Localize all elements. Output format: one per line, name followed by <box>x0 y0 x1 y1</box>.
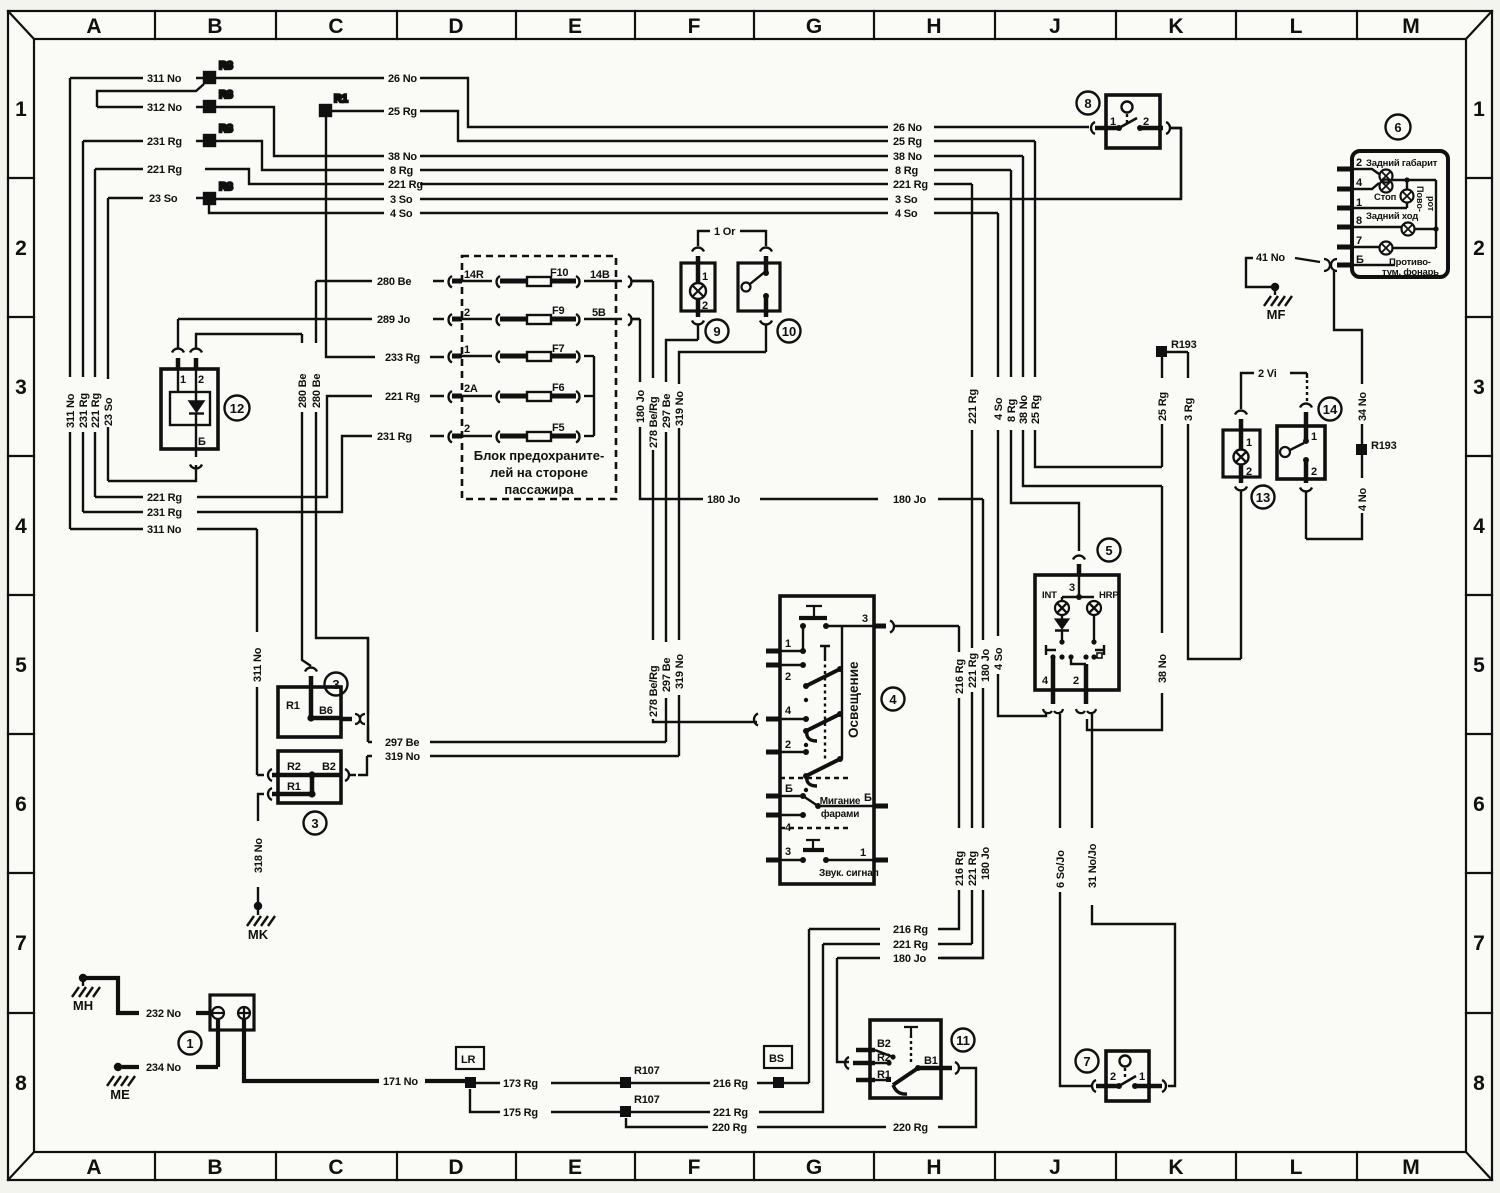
wire 297 Be <box>368 325 698 742</box>
wire 311 No <box>70 78 264 775</box>
fuse row F7 <box>449 351 594 363</box>
svg-text:INT: INT <box>1042 590 1057 601</box>
svg-text:Мигание: Мигание <box>820 796 861 807</box>
svg-text:F: F <box>688 15 701 38</box>
wire 180 Jo lower <box>938 957 983 959</box>
svg-text:319 No: 319 No <box>674 654 686 689</box>
svg-text:216 Rg: 216 Rg <box>713 1078 748 1090</box>
svg-text:14: 14 <box>1323 402 1338 417</box>
svg-text:216 Rg: 216 Rg <box>893 924 928 936</box>
wire 23 So / 3 So <box>108 128 1181 481</box>
svg-text:8 Rg: 8 Rg <box>390 165 413 177</box>
switch unit 10 <box>738 248 780 325</box>
svg-text:2: 2 <box>785 739 791 751</box>
svg-text:M: M <box>1402 1156 1420 1179</box>
svg-text:E: E <box>568 15 582 38</box>
svg-text:12: 12 <box>230 401 244 416</box>
svg-text:4: 4 <box>15 515 27 538</box>
relay 3 lower box <box>268 751 349 803</box>
unit 4 caption flash <box>820 796 861 820</box>
ground ME <box>107 1063 135 1086</box>
svg-text:L: L <box>1290 15 1303 38</box>
connector R8 #4 <box>204 181 233 204</box>
svg-text:R2: R2 <box>877 1052 891 1064</box>
svg-text:220 Rg: 220 Rg <box>712 1122 747 1134</box>
svg-text:2A: 2A <box>464 383 478 395</box>
svg-text:R8: R8 <box>219 60 233 72</box>
svg-text:G: G <box>806 1156 822 1179</box>
svg-text:8: 8 <box>1084 96 1091 111</box>
circled 12 <box>225 396 250 421</box>
svg-text:1: 1 <box>15 98 27 121</box>
wire 180 Jo <box>632 319 983 1062</box>
svg-text:2: 2 <box>198 374 204 386</box>
svg-text:312 No: 312 No <box>147 102 182 114</box>
svg-text:2: 2 <box>464 423 470 435</box>
circled 8 <box>1077 92 1100 115</box>
ground MK <box>247 902 275 926</box>
svg-text:R8: R8 <box>219 181 233 193</box>
svg-text:221 Rg: 221 Rg <box>967 851 979 886</box>
svg-text:10: 10 <box>782 324 796 339</box>
svg-text:4 So: 4 So <box>390 208 413 220</box>
svg-text:280 Be: 280 Be <box>311 374 323 408</box>
row dividers left <box>8 178 34 1013</box>
svg-text:25 Rg: 25 Rg <box>388 106 417 118</box>
svg-text:F5: F5 <box>552 422 565 434</box>
connector R8 #3 <box>204 123 233 146</box>
svg-text:B2: B2 <box>877 1038 891 1050</box>
circled 13 <box>1252 486 1275 509</box>
svg-text:221 Rg: 221 Rg <box>893 179 928 191</box>
svg-text:231 Rg: 231 Rg <box>78 393 90 428</box>
svg-text:2: 2 <box>1143 116 1149 128</box>
svg-text:297 Be: 297 Be <box>385 737 419 749</box>
circled 9 <box>706 320 729 343</box>
unit 12 diode box <box>108 349 218 482</box>
svg-text:лей на стороне: лей на стороне <box>490 465 588 480</box>
svg-text:231 Rg: 231 Rg <box>147 507 182 519</box>
wire 30 No <box>1087 486 1162 730</box>
wire 289 Jo <box>178 319 444 348</box>
svg-text:3: 3 <box>1473 376 1485 399</box>
connector R107 a <box>620 1065 710 1088</box>
svg-text:R107: R107 <box>634 1094 660 1106</box>
connector R107 b <box>620 1094 710 1117</box>
svg-text:216 Rg: 216 Rg <box>954 659 966 694</box>
wire 278 Be/Rg <box>632 281 757 722</box>
wire 312 No / 38 No <box>97 84 1162 486</box>
wire 280 Be <box>316 281 444 742</box>
fuse box caption <box>474 448 605 497</box>
svg-text:B1: B1 <box>924 1055 938 1067</box>
svg-text:8: 8 <box>1356 215 1362 227</box>
svg-text:318 No: 318 No <box>253 838 265 873</box>
wire 232 No <box>83 978 212 1013</box>
svg-text:4 So: 4 So <box>993 647 1005 670</box>
svg-text:MF: MF <box>1267 307 1286 322</box>
connector R1 <box>320 93 444 357</box>
svg-text:Задний габарит: Задний габарит <box>1366 158 1438 169</box>
svg-text:LR: LR <box>461 1054 476 1066</box>
connector X at unit 6 pin Б <box>1324 259 1337 271</box>
svg-text:3 Rg: 3 Rg <box>1183 398 1195 421</box>
svg-text:R8: R8 <box>219 123 233 135</box>
svg-text:311 No: 311 No <box>252 647 264 682</box>
svg-text:233 Rg: 233 Rg <box>385 352 420 364</box>
svg-text:Б: Б <box>198 436 206 448</box>
svg-text:F: F <box>688 1156 701 1179</box>
svg-text:R1: R1 <box>287 781 301 793</box>
svg-text:3: 3 <box>332 677 339 692</box>
svg-text:M: M <box>1402 15 1420 38</box>
svg-text:278 Be/Rg: 278 Be/Rg <box>648 397 660 448</box>
svg-text:Задний ход: Задний ход <box>1366 211 1418 222</box>
wire 41 No <box>1246 258 1320 287</box>
switch unit 14 <box>1277 373 1325 539</box>
svg-text:BS: BS <box>769 1053 784 1065</box>
circled 11 <box>952 1029 975 1052</box>
svg-text:2: 2 <box>15 237 27 260</box>
fuse row F9 <box>449 314 640 326</box>
wire 6 So/Jo <box>1060 714 1093 1086</box>
wire 221 Rg lower <box>759 944 972 1112</box>
svg-text:1: 1 <box>464 344 470 356</box>
svg-text:рот: рот <box>1426 196 1436 212</box>
svg-text:A: A <box>86 15 101 38</box>
svg-text:216 Rg: 216 Rg <box>954 851 966 886</box>
ground MF <box>1264 283 1292 306</box>
svg-text:221 Rg: 221 Rg <box>90 393 102 428</box>
connector R8 #2 <box>204 89 233 112</box>
wire 280 Be branch to unit 12 pin 2 <box>196 334 311 666</box>
svg-text:Блок предохраните-: Блок предохраните- <box>474 448 605 463</box>
svg-text:1: 1 <box>1311 431 1317 443</box>
circled 1 <box>179 1032 202 1055</box>
wire 319 No hook at B2 <box>358 756 367 775</box>
svg-text:H: H <box>926 1156 941 1179</box>
svg-text:MH: MH <box>73 998 93 1013</box>
circled 4 <box>882 688 905 711</box>
svg-text:11: 11 <box>956 1033 970 1048</box>
svg-text:E: E <box>568 1156 582 1179</box>
svg-text:2: 2 <box>1311 466 1317 478</box>
svg-text:7: 7 <box>1083 1054 1090 1069</box>
grid letters top <box>86 15 1419 38</box>
fuse box (dashed) <box>462 256 616 499</box>
svg-text:F7: F7 <box>552 343 565 355</box>
svg-text:2: 2 <box>1073 675 1079 687</box>
svg-text:4: 4 <box>889 692 897 707</box>
svg-text:297 Be: 297 Be <box>661 658 673 692</box>
svg-text:2: 2 <box>702 300 708 312</box>
svg-text:D: D <box>448 1156 463 1179</box>
svg-text:38 No: 38 No <box>1018 395 1030 424</box>
svg-text:G: G <box>806 15 822 38</box>
wire 231 Rg to fuse F5 <box>83 436 444 512</box>
svg-text:231 Rg: 231 Rg <box>147 136 182 148</box>
svg-text:14B: 14B <box>590 269 610 281</box>
row dividers right <box>1466 178 1492 1013</box>
svg-text:6: 6 <box>15 793 27 816</box>
svg-text:25 Rg: 25 Rg <box>1157 392 1169 421</box>
svg-text:R193: R193 <box>1171 339 1197 351</box>
svg-text:278 Be/Rg: 278 Be/Rg <box>648 666 660 717</box>
svg-text:Пово-: Пово- <box>1415 186 1425 212</box>
svg-text:23 So: 23 So <box>103 397 115 426</box>
svg-text:5: 5 <box>1105 543 1112 558</box>
svg-text:пассажира: пассажира <box>504 482 574 497</box>
svg-text:2: 2 <box>1246 466 1252 478</box>
connector R193 a <box>1156 339 1241 659</box>
svg-text:R8: R8 <box>219 89 233 101</box>
svg-text:180 Jo: 180 Jo <box>893 953 927 965</box>
svg-text:2: 2 <box>1356 157 1362 169</box>
connector R8 #1 <box>204 60 233 83</box>
svg-text:232 No: 232 No <box>146 1008 181 1020</box>
svg-text:180 Jo: 180 Jo <box>980 648 992 682</box>
svg-text:4 No: 4 No <box>1357 487 1369 511</box>
circled 7 <box>1076 1050 1099 1073</box>
column dividers top <box>155 11 1357 39</box>
svg-text:175 Rg: 175 Rg <box>503 1107 538 1119</box>
svg-text:231 Rg: 231 Rg <box>377 431 412 443</box>
svg-text:C: C <box>328 15 343 38</box>
wire 221 Rg to fuse F6 <box>95 396 444 497</box>
svg-text:8 Rg: 8 Rg <box>1006 399 1018 422</box>
light switch unit 4 <box>754 596 894 884</box>
fuse outputs bridge <box>593 356 595 436</box>
svg-text:319 No: 319 No <box>385 751 420 763</box>
switch unit 7 <box>1092 1051 1166 1101</box>
svg-text:R193: R193 <box>1371 440 1397 452</box>
svg-text:26 No: 26 No <box>388 73 417 85</box>
wire 31 No/Jo <box>1092 714 1175 1086</box>
svg-text:2: 2 <box>1473 237 1485 260</box>
svg-text:1: 1 <box>702 271 708 283</box>
wire 221 Rg top <box>95 169 972 944</box>
svg-text:180 Jo: 180 Jo <box>980 846 992 880</box>
fuse row F10 <box>449 276 653 288</box>
wire 1 Or <box>698 231 766 246</box>
svg-text:Освещение: Освещение <box>846 661 861 738</box>
svg-text:4: 4 <box>1473 515 1485 538</box>
svg-text:1: 1 <box>180 374 186 386</box>
svg-text:C: C <box>328 1156 343 1179</box>
svg-text:1: 1 <box>1139 1071 1145 1083</box>
svg-text:221 Rg: 221 Rg <box>713 1107 748 1119</box>
svg-text:5B: 5B <box>592 307 606 319</box>
svg-text:R1: R1 <box>286 700 300 712</box>
svg-text:J: J <box>1049 1156 1061 1179</box>
svg-text:B: B <box>207 15 222 38</box>
svg-text:289 Jo: 289 Jo <box>377 314 411 326</box>
ground MH <box>72 974 100 997</box>
svg-text:34 No: 34 No <box>1357 392 1369 421</box>
tail light unit 6 <box>1337 151 1448 277</box>
svg-text:B6: B6 <box>319 705 333 717</box>
svg-text:221 Rg: 221 Rg <box>147 164 182 176</box>
svg-text:F10: F10 <box>550 267 568 279</box>
svg-text:38 No: 38 No <box>1157 654 1169 683</box>
column dividers bottom <box>155 1152 1357 1180</box>
svg-text:173 Rg: 173 Rg <box>503 1078 538 1090</box>
svg-text:280 Be: 280 Be <box>297 374 309 408</box>
wire 231 Rg / 8 Rg <box>83 141 1079 551</box>
svg-text:1: 1 <box>186 1036 193 1051</box>
svg-text:3 So: 3 So <box>390 194 413 206</box>
svg-text:Б: Б <box>1356 254 1364 266</box>
svg-text:7: 7 <box>15 932 27 955</box>
svg-text:3: 3 <box>15 376 27 399</box>
svg-text:1: 1 <box>1246 437 1252 449</box>
svg-text:25 Rg: 25 Rg <box>893 136 922 148</box>
grid letters bottom <box>86 1156 1419 1179</box>
svg-text:234 No: 234 No <box>146 1062 181 1074</box>
svg-text:J: J <box>1049 15 1061 38</box>
svg-text:9: 9 <box>713 324 720 339</box>
svg-text:38 No: 38 No <box>893 151 922 163</box>
lamp unit 13 <box>1223 373 1307 659</box>
svg-text:13: 13 <box>1256 490 1270 505</box>
svg-text:L: L <box>1290 1156 1303 1179</box>
svg-text:3: 3 <box>785 846 791 858</box>
svg-text:тум. фонарь: тум. фонарь <box>1382 267 1439 278</box>
wire 216 Rg <box>809 626 959 1083</box>
lamp unit 9 <box>681 248 715 325</box>
circled 5 <box>1098 539 1121 562</box>
svg-text:1: 1 <box>1473 98 1485 121</box>
svg-text:фарами: фарами <box>821 808 859 820</box>
svg-text:D: D <box>448 15 463 38</box>
svg-text:8: 8 <box>15 1072 27 1095</box>
svg-text:221 Rg: 221 Rg <box>967 653 979 688</box>
wire 173 Rg <box>476 1082 620 1084</box>
svg-text:221 Rg: 221 Rg <box>385 391 420 403</box>
wire 216 Rg to BS <box>757 1082 809 1084</box>
svg-text:F6: F6 <box>552 382 565 394</box>
svg-text:8: 8 <box>1473 1072 1485 1095</box>
svg-text:R107: R107 <box>634 1065 660 1077</box>
grid numbers left <box>15 98 27 1095</box>
wire 220 Rg <box>626 1068 976 1127</box>
svg-text:2 Vi: 2 Vi <box>1258 368 1277 380</box>
svg-text:221 Rg: 221 Rg <box>893 939 928 951</box>
svg-text:B2: B2 <box>322 761 336 773</box>
wire 4 No <box>1306 455 1362 539</box>
interior lamp unit 5 <box>1035 556 1119 714</box>
svg-text:F9: F9 <box>552 305 565 317</box>
svg-text:Б: Б <box>864 792 872 804</box>
switch unit 8 <box>1091 95 1181 199</box>
svg-text:R1: R1 <box>877 1069 891 1081</box>
svg-text:A: A <box>86 1156 101 1179</box>
svg-text:6 So/Jo: 6 So/Jo <box>1055 850 1067 888</box>
svg-text:Стоп: Стоп <box>1374 192 1397 203</box>
svg-text:311 No: 311 No <box>65 393 77 428</box>
wire 34 No <box>1334 271 1362 444</box>
svg-text:B: B <box>207 1156 222 1179</box>
connector R193 b <box>1356 440 1397 455</box>
svg-text:1: 1 <box>1356 197 1362 209</box>
svg-text:221 Rg: 221 Rg <box>147 492 182 504</box>
svg-text:HRP: HRP <box>1099 590 1119 601</box>
wire 25 Rg <box>331 111 1162 467</box>
svg-text:171 No: 171 No <box>383 1076 418 1088</box>
svg-text:5: 5 <box>1473 654 1485 677</box>
svg-text:R1: R1 <box>334 93 348 105</box>
svg-text:3: 3 <box>1069 582 1075 594</box>
grid numbers right <box>1473 98 1485 1095</box>
svg-text:2: 2 <box>1110 1071 1116 1083</box>
svg-text:5: 5 <box>15 654 27 677</box>
svg-text:311 No: 311 No <box>147 524 182 536</box>
wire 175 Rg <box>470 1089 620 1112</box>
relay unit 11 <box>845 1020 959 1098</box>
svg-text:38 No: 38 No <box>388 151 417 163</box>
svg-text:R2: R2 <box>287 761 301 773</box>
svg-text:2: 2 <box>785 671 791 683</box>
svg-text:41 No: 41 No <box>1256 252 1285 264</box>
svg-text:1: 1 <box>785 638 791 650</box>
svg-text:25 Rg: 25 Rg <box>1030 395 1042 424</box>
svg-text:Б: Б <box>785 783 793 795</box>
svg-text:K: K <box>1168 15 1183 38</box>
wire 234 No <box>122 1019 218 1067</box>
svg-text:26 No: 26 No <box>893 122 922 134</box>
svg-text:4 So: 4 So <box>993 397 1005 420</box>
circled 14 <box>1319 398 1342 421</box>
svg-text:31 No/Jo: 31 No/Jo <box>1087 843 1099 888</box>
svg-text:7: 7 <box>1473 932 1485 955</box>
svg-text:1: 1 <box>860 847 866 859</box>
wire 319 No <box>349 325 766 775</box>
wire 171 No <box>244 1019 465 1081</box>
svg-text:6: 6 <box>1473 793 1485 816</box>
svg-text:Звук. сигнал: Звук. сигнал <box>819 868 879 879</box>
svg-text:297 Be: 297 Be <box>661 394 673 428</box>
svg-text:3: 3 <box>862 613 868 625</box>
svg-text:ME: ME <box>110 1087 130 1102</box>
svg-text:3 So: 3 So <box>895 194 918 206</box>
wire 4 So <box>209 204 1046 716</box>
svg-text:180 Jo: 180 Jo <box>635 389 647 423</box>
svg-text:221 Rg: 221 Rg <box>967 389 979 424</box>
svg-text:23 So: 23 So <box>149 193 178 205</box>
svg-text:H: H <box>926 15 941 38</box>
svg-text:3: 3 <box>311 816 318 831</box>
circled 6 <box>1386 115 1411 140</box>
svg-text:1: 1 <box>1110 116 1116 128</box>
svg-text:319 No: 319 No <box>674 391 686 426</box>
battery unit 1 <box>210 995 254 1030</box>
fuse row F5 <box>449 431 594 443</box>
connector LR <box>456 1047 484 1088</box>
circled 3 lower <box>304 812 327 835</box>
svg-text:311 No: 311 No <box>147 73 182 85</box>
svg-text:14R: 14R <box>464 269 484 281</box>
svg-text:220 Rg: 220 Rg <box>893 1122 928 1134</box>
connector BS <box>764 1046 792 1088</box>
circled 10 <box>778 320 801 343</box>
svg-text:K: K <box>1168 1156 1183 1179</box>
svg-text:1 Or: 1 Or <box>714 226 736 238</box>
svg-text:4 So: 4 So <box>895 208 918 220</box>
wire 26 No <box>215 78 1089 127</box>
svg-text:2: 2 <box>464 307 470 319</box>
svg-text:221 Rg: 221 Rg <box>388 179 423 191</box>
relay 3 upper box <box>278 639 368 742</box>
